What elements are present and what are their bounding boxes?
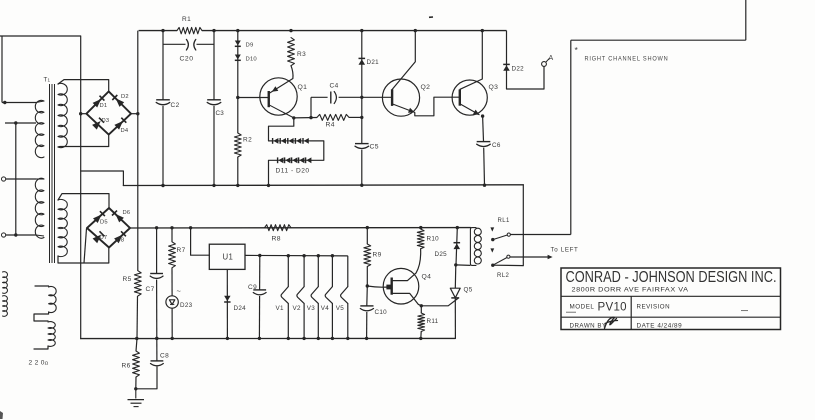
wire C2 upper [162,31,164,100]
wire Q3 emitter down [482,116,485,141]
wire R9 upper [366,228,368,244]
titleblock dash mark 1 [566,311,576,313]
wire C4 right lead [339,96,362,98]
wire bridge1 left corner [81,113,87,115]
diode D7 [93,235,102,244]
svg-text:R3: R3 [297,51,306,58]
lamp D23 element [169,300,174,305]
wire C3 upper [213,31,215,100]
tube V5 [347,256,349,287]
svg-text:D22: D22 [512,66,525,73]
diode string D11-D15 row [273,138,278,144]
svg-text:D24: D24 [234,305,247,312]
transistor Q1 emitter [269,79,293,94]
wire R7 to D23 [171,268,173,296]
transistor Q4 base blob [386,285,390,290]
tube V2 [302,254,305,257]
wire C4 left lead [311,96,328,98]
resistor R10 [417,229,424,249]
transistor Q1 collector [269,105,294,118]
transistor Q2 body [382,79,419,116]
wire C5 bottom [361,150,363,186]
node R10 top [419,226,422,229]
wire secondary-upper bottom [58,146,109,149]
svg-text:Q4: Q4 [422,274,432,281]
transistor Q3 collector [460,31,482,90]
wire top rail left segment [139,30,177,32]
capacitor C6 [477,141,491,143]
wire R6 upper [136,339,137,352]
svg-text:MODEL: MODEL [570,304,595,311]
svg-text:~: ~ [177,287,182,296]
node U1 input [189,226,192,229]
wire secondary-lower top to bridge2 [58,194,109,208]
diode D3 [92,121,101,130]
svg-text:R1: R1 [182,16,191,23]
wire mid rail drop right [522,185,524,266]
node C5 bottom [360,184,363,187]
resistor R3 [288,38,295,66]
svg-text:REVISION: REVISION [637,304,671,311]
relay RL1 fixed contact [490,227,494,231]
node R11 bottom [419,337,422,340]
node C7 bottom [155,337,158,340]
svg-text:To LEFT: To LEFT [551,247,579,254]
wire string from collector [269,118,294,141]
resistor R9 [364,244,371,267]
diode D10 [235,55,241,60]
svg-text:V5: V5 [336,305,344,312]
transistor Q1 body [260,78,297,115]
diode D5 [93,215,102,224]
diode D6 [115,214,124,223]
wire Q5 anode [454,265,457,288]
resistor R8 [265,225,292,231]
bridge rectifier D1-D4 diamond [86,91,131,134]
capacitor C3 [207,99,221,101]
svg-text:D21: D21 [367,59,380,66]
node D21 top [360,29,363,32]
winding T1 secondary lower [58,199,67,256]
diode D22 [503,65,510,71]
resistor R11 [418,313,425,332]
diode D4 [114,121,123,130]
wire coil bottom lead [456,264,471,267]
svg-text:RIGHT CHANNEL SHOWN: RIGHT CHANNEL SHOWN [585,56,669,63]
wire secondary-upper top to bridge [58,80,109,92]
node R6 bottom [134,387,137,390]
svg-text:C7: C7 [146,286,155,293]
regulator U1 box [209,244,245,269]
svg-text:C20: C20 [180,56,194,63]
node C3 top [212,29,215,32]
svg-text:D11 - D20: D11 - D20 [276,168,310,175]
winding left-edge upper [3,272,8,294]
svg-text:V4: V4 [321,305,329,312]
svg-text:R11: R11 [427,318,439,325]
terminal A [542,62,547,67]
wire U1 input [191,228,210,255]
transistor Q1 base bar [268,91,270,107]
wire left-edge drop [1,36,3,103]
svg-text:RL2: RL2 [497,273,509,279]
wire Q2 emitter to Q3 base [415,97,460,116]
svg-text:D2: D2 [121,94,129,100]
diode D21 [359,59,366,65]
svg-text:C2: C2 [171,102,180,109]
svg-text:D9: D9 [246,43,254,49]
tube V4 [331,254,334,257]
svg-text:V1: V1 [276,305,284,312]
diode D1 [93,99,102,108]
diode D24 [224,296,230,301]
wire Q1 base lead [238,97,269,99]
wire C6 bottom [483,148,486,186]
wire AC input 3 [6,178,36,180]
wire AC input 2 [5,122,36,124]
wire R6 bottom [135,377,137,389]
node Q4 emitter node [420,304,423,307]
wire AC input 4 [6,234,36,236]
node AC input 1 [3,101,6,104]
svg-text:C3: C3 [216,110,225,117]
svg-text:RL1: RL1 [498,218,510,224]
wire Q5 cathode [454,298,456,339]
svg-text:V3: V3 [307,305,315,312]
transistor Q2 base bar [391,89,393,106]
svg-text:D5: D5 [100,220,108,226]
bridge rectifier D5-D8 diamond [87,208,130,248]
capacitor C4 [330,92,332,104]
wire D22 to terminal [507,67,545,90]
relay RL2 fixed contact [490,248,494,252]
node AC input 2 [14,121,17,124]
thyristor Q5 [450,288,460,298]
svg-text:D23: D23 [180,302,193,309]
node C7 top [155,226,158,229]
wire U1 ground leg [226,269,228,338]
capacitor C7 [150,273,163,275]
svg-text:D3: D3 [102,118,110,124]
wire secondary-lower bottom [58,256,109,263]
node D25 top [456,226,459,229]
svg-text:R9: R9 [373,252,382,259]
wire R7 upper [171,228,173,242]
wire top-right horizontal [571,39,746,41]
transistor Q3 emitter [460,104,480,115]
node D25 bottom [454,263,457,266]
wire bridge1 bottom drop [108,135,110,147]
transistor Q2 emitter arrow [408,108,415,113]
wire R11 bottom [420,332,422,339]
wire bridge2 left drop [84,229,87,264]
capacitor C8 [151,360,164,362]
transistor Q2 emitter [392,104,414,113]
wire C20 branch left [163,43,186,45]
svg-text:CONRAD - JOHNSON DESIGN INC.: CONRAD - JOHNSON DESIGN INC. [566,269,777,286]
capacitor C5 [355,143,369,145]
wire D23 bottom [171,308,173,338]
svg-text:R2: R2 [243,137,252,144]
node C4 branch [309,116,312,119]
svg-text:Q5: Q5 [464,287,473,294]
node C2 top [161,29,164,32]
titleblock divider 2 [561,316,781,318]
resistor R6 [133,351,140,377]
wire C8 upper [156,338,158,360]
svg-text:D8: D8 [117,238,125,244]
node string bottom [267,184,270,187]
node bridge1 plus [136,112,139,115]
svg-text:C6: C6 [492,142,501,149]
resistor R5 [134,271,141,296]
wire bridge2 bottom drop [108,248,110,264]
capacitor C20 [186,39,188,50]
diode D2 [116,98,125,107]
wire C10 upper [366,286,369,306]
svg-text:2800R DORR AVE FAIRFAX VA: 2800R DORR AVE FAIRFAX VA [572,286,689,293]
svg-text:Q1: Q1 [298,84,308,91]
wire C9 lower [258,296,260,338]
wire B+ column [137,31,139,271]
ground symbol [135,389,137,399]
wire to-left arrow [510,256,549,258]
wire D25 column [456,228,457,265]
wire primary jumper [15,123,17,235]
transistor Q4 collector [392,249,421,281]
node Q4 base node [366,284,369,287]
node R7 top [170,226,173,229]
wire R3 to Q1 emitter [291,66,293,79]
svg-text:T1: T1 [44,77,51,84]
svg-text:2 2 0Ω: 2 2 0Ω [29,360,49,367]
wire collector to R4 [294,117,317,119]
wire bias rail [130,227,470,229]
winding T1 primary upper [35,100,44,157]
relay RL1 armature [491,238,494,241]
svg-text:D1: D1 [100,103,108,109]
titleblock signature [605,317,618,328]
wire RL2 armature common [493,264,524,266]
wire top-left AC corner [0,35,81,37]
arrow to-left head [548,255,553,259]
titleblock dash mark 2 [741,310,748,312]
wire C7 lower [156,280,158,339]
node R9 top [366,226,369,229]
svg-text:Q3: Q3 [489,84,499,91]
svg-text:R10: R10 [427,236,440,243]
wire C20 branch right [197,43,215,45]
svg-text:U1: U1 [223,253,234,262]
node R4 right [360,116,363,119]
winding T1 secondary upper [58,83,67,147]
wire D21 column [361,31,363,144]
capacitor C10 [360,305,373,307]
wire C9 upper [259,256,261,290]
lamp D23 body [166,296,178,308]
transistor Q3 base bar [459,90,461,106]
svg-text:C5: C5 [370,144,380,151]
capacitor C9 [253,289,266,291]
node Q1 base junction [236,96,239,99]
svg-text:R7: R7 [177,247,186,254]
wire C4 branch up [310,97,312,117]
wire output riser [570,40,572,234]
node Q2 collector top [414,29,417,32]
node D9 top [236,29,239,32]
wire top rail right segment [202,30,507,32]
node Q1 collector [292,116,295,119]
wire R9 lower [366,267,368,287]
transistor Q4 emitter [392,293,421,305]
resistor R2 [234,133,241,157]
wire top-right vertical [745,0,747,40]
winding left-edge lower [3,296,8,317]
wire U1 output [245,254,348,257]
capacitor C2 [156,99,170,101]
node C2 bottom [161,184,164,187]
wire C10 lower [366,312,368,338]
wire Q2 base lead [362,96,392,98]
transistor Q4 base bar [391,278,393,295]
tube V1 [287,254,290,257]
transistor Q3 body [452,80,487,115]
node C8 top [155,337,158,340]
diode string D16-D20 row [278,157,283,163]
diode D8 [114,235,123,244]
svg-text:A: A [549,55,554,62]
transistor Q3 emitter arrow [473,110,480,115]
wire Q4 emitter to Q5 gate [421,299,458,306]
svg-text:R4: R4 [326,122,336,129]
node C3 bottom [212,184,215,187]
titleblock outer box [561,268,781,330]
terminal AC input 3 [2,177,6,181]
svg-text:DRAWN BY: DRAWN BY [570,322,607,329]
diode D25 [454,244,461,250]
node bridge1 left [79,112,82,115]
terminal AC input 4 [2,233,6,237]
svg-text:R8: R8 [272,236,282,243]
node D23 bottom [171,337,174,340]
wire string to mid rail [269,160,278,185]
wire C3 lower [213,106,215,186]
svg-text:R6: R6 [122,363,131,370]
titleblock divider 1 [561,295,781,297]
transistor Q2 collector [392,31,415,90]
node C9 bottom [258,337,261,340]
diode D9 [235,41,241,46]
svg-text:D25: D25 [435,251,448,258]
svg-text:D4: D4 [121,128,129,134]
wire string right loop [310,141,324,160]
svg-text:V2: V2 [293,305,301,312]
node D21 base junction [360,96,363,99]
node R5 rail [135,337,138,340]
wire R4 right lead [349,116,362,118]
wire left bus vertical [80,36,82,339]
svg-text:C4: C4 [330,83,339,90]
wire left bus jog to mid rail [81,171,124,186]
svg-text:D10: D10 [246,57,258,63]
node D24 bottom [226,337,229,340]
wire R5 bottom [136,296,139,339]
node C9 top [258,254,261,257]
svg-text:DATE 4/24/89: DATE 4/24/89 [637,322,683,329]
wire C8 bottom jog [136,367,157,389]
resistor R7 [169,242,176,268]
svg-text:C8: C8 [160,353,169,360]
svg-text:D7: D7 [100,235,108,241]
wire C7 upper [156,228,158,274]
resistor R4 [317,114,349,120]
wire AC input 1 [2,102,36,104]
wire bottom rail [81,337,456,339]
node Q3 collector top [481,29,484,32]
winding T1 primary lower [35,178,44,238]
svg-text:PV10: PV10 [598,302,627,314]
resistor R1 [177,27,202,33]
wire R11 upper [420,306,422,313]
tube V3 [317,254,320,257]
svg-text:Q2: Q2 [421,84,431,91]
node C6 bottom [483,184,486,187]
svg-text:R5: R5 [123,276,132,283]
wire RL1 to output riser [510,234,570,236]
titleblock divider vertical [630,296,632,329]
transistor Q4 body [383,268,419,304]
wire D9-D10 column [237,31,239,133]
wire mid rail [123,184,523,187]
node C10 bottom [365,337,368,340]
wire Q4 base lead [367,286,389,287]
relay RL2 armature [491,264,494,267]
wire R2 bottom [237,157,239,185]
wire C2 lower [162,106,164,186]
node Q3 emitter [481,114,484,117]
smudge bottom-left corner [0,411,3,419]
wire D22 column [506,31,508,89]
svg-text:C10: C10 [375,309,388,316]
transformer T1 core [49,84,51,263]
node AC input 4 [14,233,17,236]
svg-text:*: * [575,45,579,55]
svg-text:C9: C9 [248,284,257,291]
relay coil RL1/RL2 [470,228,476,266]
speck [429,16,433,18]
svg-text:D6: D6 [123,210,131,216]
node R3 top [289,29,292,32]
winding 220-ohm choke [35,285,49,287]
wire terminal A tick [546,58,550,62]
transistor Q1 emitter arrow [272,86,279,92]
node R2 bottom [236,184,239,187]
wire bridge1 plus to column [131,113,138,115]
